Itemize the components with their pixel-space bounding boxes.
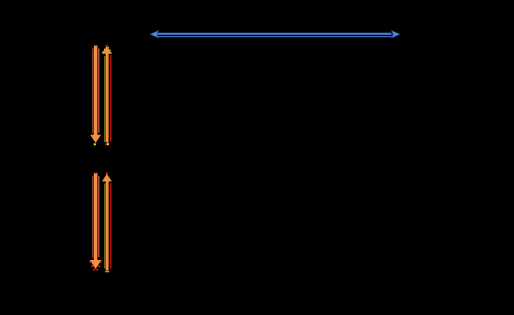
down arrow 2: arrowhead: [90, 260, 102, 269]
down arrow 2: red top cap (artifact): [94, 173, 98, 174]
orange up arrow, pair 2 right: [102, 172, 112, 272]
up arrow 1: yellow edge artifact left: [103, 47, 107, 53]
up arrow 2: arrowhead: [102, 174, 112, 182]
orange down arrow, pair 2 left: [89, 173, 102, 271]
up arrow 1: left olive fringe: [104, 56, 105, 142]
up arrow 1: yellow edge artifact right: [108, 47, 112, 53]
up arrow 2: left olive fringe: [104, 184, 105, 269]
blue horizontal double-headed arrow: [150, 31, 399, 38]
down arrow 1: yellow tip speck: [94, 143, 96, 145]
down arrow 1: red top cap (artifact): [94, 45, 97, 46]
up arrow 2: orange shaft: [106, 181, 109, 271]
down arrow 2: red specks around head: [89, 261, 91, 263]
up arrow 1: yellow bottom speck: [107, 143, 109, 145]
down arrow 2: orange shaft: [94, 174, 98, 260]
orange down arrow, pair 1 left: [90, 45, 101, 145]
down arrow 1: left maroon fringe: [92, 48, 93, 133]
down arrow 2: left maroon fringe: [92, 176, 93, 258]
up arrow 2: red tip speck: [106, 172, 108, 174]
up arrow 1: red bottom speck: [105, 143, 107, 145]
up arrow 1: right red fringe: [110, 55, 111, 142]
blue arrow left head: [150, 31, 158, 38]
up arrow 2: orange bottom dash: [105, 271, 109, 272]
up arrow 2: right red fringe: [110, 183, 111, 269]
orange up arrow, pair 1 right: [102, 45, 112, 146]
down arrow 1: arrowhead: [90, 135, 101, 143]
down arrow 1: orange shaft: [94, 46, 98, 135]
down arrow 2: right salmon fringe: [98, 176, 99, 257]
wire: blue arrow shaft top line: [158, 33, 392, 35]
up arrow 1: red tip speck: [106, 45, 108, 47]
up arrow 1: orange shaft: [106, 54, 109, 143]
blue arrow right head: [392, 31, 400, 38]
up arrow 1: arrowhead: [102, 46, 112, 54]
wire: blue arrow shaft bottom line: [158, 36, 392, 37]
down arrow 1: right salmon fringe: [98, 48, 99, 132]
